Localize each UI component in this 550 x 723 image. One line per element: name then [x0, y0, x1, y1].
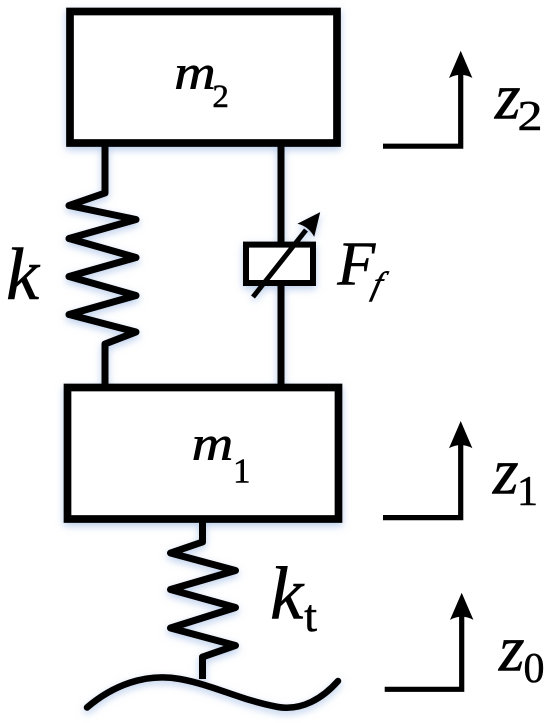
svg-text:1: 1 [517, 469, 538, 515]
damper arrowhead [297, 212, 320, 237]
mass block m2 [70, 12, 337, 144]
damper diagonal arrow shaft [253, 230, 306, 297]
z2 axis baseline [383, 72, 461, 146]
svg-text:1: 1 [233, 451, 251, 490]
wire damper to m1 [278, 283, 285, 390]
z0 arrowhead [450, 593, 473, 620]
z1 axis baseline [383, 443, 461, 518]
svg-text:0: 0 [524, 646, 545, 692]
svg-text:k: k [6, 234, 41, 316]
road surface wave [87, 677, 338, 707]
svg-text:z: z [492, 435, 519, 508]
z1 arrowhead [449, 421, 472, 448]
wire m2 to spring k, spring k, wire to m1 [69, 143, 136, 390]
mass block m1 [68, 388, 339, 520]
damper body (variable force element) [246, 245, 313, 283]
svg-text:2: 2 [212, 79, 229, 115]
svg-text:m: m [174, 47, 216, 100]
z0 axis baseline [385, 615, 462, 690]
svg-text:2: 2 [518, 94, 543, 140]
wire m1 to spring kt, spring kt, wire to road [171, 519, 236, 679]
svg-text:t: t [304, 590, 317, 641]
svg-text:F: F [336, 231, 376, 299]
z2 arrowhead [449, 51, 472, 78]
svg-text:z: z [498, 612, 525, 685]
svg-text:k: k [270, 552, 305, 635]
wire m2 to damper [278, 140, 285, 246]
svg-text:m: m [192, 418, 234, 471]
